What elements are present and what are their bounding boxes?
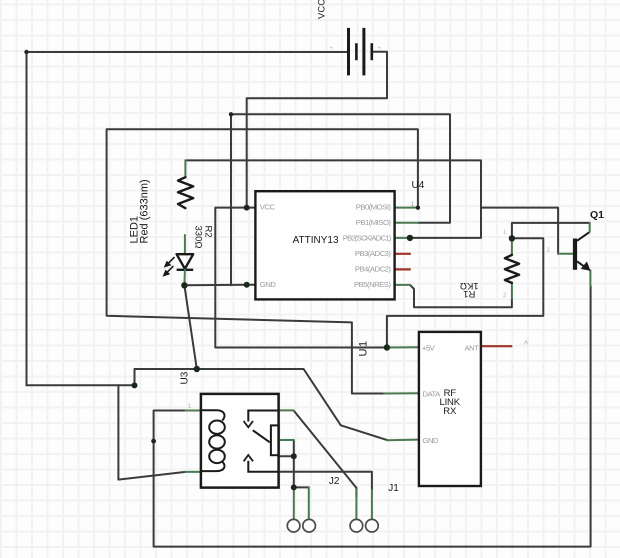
wire PB0 green to bendpoint bbox=[395, 207, 418, 209]
junction PB2 pin bbox=[407, 235, 413, 241]
svg-text:+5V: +5V bbox=[422, 343, 436, 352]
pad J2 pin1 bbox=[287, 519, 300, 532]
junction U3 area bbox=[194, 366, 200, 372]
pad J2 pin2 bbox=[303, 519, 316, 532]
battery B1 bbox=[349, 28, 372, 76]
wire green J2 right pad lead bbox=[308, 487, 310, 519]
svg-text:1: 1 bbox=[411, 201, 415, 208]
wire relay bottom contact pin to J2 junction bbox=[279, 455, 294, 457]
wire green J1 left pad lead bbox=[355, 490, 357, 519]
svg-text:VCC: VCC bbox=[317, 0, 328, 19]
wire green stub R1 bottom bbox=[511, 283, 513, 299]
svg-text:1: 1 bbox=[503, 230, 507, 236]
wire green stub RF DATA pin bbox=[384, 392, 419, 394]
svg-text:PB5(NRES): PB5(NRES) bbox=[354, 280, 391, 289]
wire green stub relay top right pin bbox=[279, 409, 294, 411]
coil loops bbox=[201, 410, 225, 420]
svg-text:A: A bbox=[524, 341, 528, 347]
wire green stub relay coil top pin bbox=[186, 410, 201, 412]
svg-text:330Ω: 330Ω bbox=[193, 226, 204, 249]
junction R1 top bbox=[509, 235, 515, 241]
wire relay COM to J2 pads bbox=[293, 440, 295, 487]
wire U3 junction to RF GND (diagonals) bbox=[197, 369, 388, 440]
switch bottom contact with up arrow bbox=[248, 461, 278, 472]
svg-text:J1: J1 bbox=[388, 483, 399, 494]
svg-text:2: 2 bbox=[503, 293, 507, 299]
relay U3 bbox=[201, 394, 279, 488]
wire green stub relay coil bottom pin bbox=[186, 471, 201, 473]
svg-text:U3: U3 bbox=[180, 371, 191, 384]
wire R1 top to Q1 collector bbox=[512, 223, 590, 238]
svg-text:VCC: VCC bbox=[260, 203, 276, 212]
junction J2 b bbox=[291, 484, 297, 490]
wire IC VCC pin to left bbox=[215, 208, 387, 348]
wire PB1 to GND vertical x231 bbox=[231, 114, 450, 285]
svg-text:DATA: DATA bbox=[422, 389, 441, 398]
switch lever bbox=[253, 430, 270, 442]
wire PB2 branch to Q1 base bbox=[481, 208, 558, 254]
wire green stub R2 top bbox=[184, 160, 186, 177]
wire PB2 junction to R2 top bbox=[185, 160, 481, 238]
svg-text:RX: RX bbox=[443, 406, 457, 417]
wire green stub PB1 bbox=[395, 222, 418, 224]
wire LED cathode to U3 junction (diagonal) bbox=[184, 285, 196, 369]
svg-text:U4: U4 bbox=[412, 180, 425, 191]
wire +5V up and over to R1 top bbox=[387, 238, 543, 347]
bendpoint coil-top wire bbox=[151, 439, 156, 444]
svg-text:1KΩ: 1KΩ bbox=[460, 280, 479, 291]
wire VCC: battery right down to IC VCC bbox=[247, 52, 387, 208]
wire green stub PB5 bbox=[395, 284, 411, 286]
red stub RF ANT unconnected bbox=[481, 345, 513, 347]
junction J2 a bbox=[291, 453, 297, 459]
wire PB0 to RF DATA bbox=[107, 129, 418, 393]
switch top contact with down arrow bbox=[248, 411, 278, 422]
IC U4 ATTINY13 box bbox=[255, 191, 394, 299]
wire green J1 right pad lead bbox=[371, 490, 373, 519]
wire green stub PB2 bbox=[395, 237, 410, 239]
wire green stub Q1 emitter bbox=[589, 271, 591, 286]
wire green stub Q1 base bbox=[558, 253, 573, 255]
svg-text:GND: GND bbox=[422, 436, 439, 445]
svg-text:Q1: Q1 bbox=[590, 209, 604, 221]
LED LED1 bbox=[164, 235, 193, 285]
RF module U1 box bbox=[419, 332, 481, 486]
svg-text:PB2(SCK/ADC1): PB2(SCK/ADC1) bbox=[343, 234, 392, 243]
svg-text:PB4(ADC2): PB4(ADC2) bbox=[355, 265, 392, 274]
wire green stub RF GND pin bbox=[388, 439, 419, 442]
wire green J2 left pad lead bbox=[293, 487, 295, 519]
wire relay coil top to bottom rail to Q1 emitter bbox=[154, 286, 591, 547]
wire GND to relay coil bottom bbox=[118, 385, 185, 479]
bendpoint PB0 wire bbox=[416, 206, 420, 210]
svg-text:PB0(MOSI): PB0(MOSI) bbox=[356, 203, 392, 212]
wire LED junction to IC GND pin bbox=[184, 284, 246, 287]
wire jog at left junction bbox=[135, 369, 197, 385]
svg-text:2: 2 bbox=[547, 248, 551, 254]
wire GND: battery left to top-left corner bbox=[27, 52, 349, 385]
red stub PB3 unconnected bbox=[395, 253, 411, 255]
bendpoint top-left bbox=[24, 50, 28, 54]
svg-text:ANT: ANT bbox=[465, 343, 480, 352]
wire green stub RF +5V pin bbox=[387, 346, 419, 348]
red stub PB4 unconnected bbox=[395, 268, 411, 270]
wire green stub R1 top bbox=[511, 238, 513, 255]
wire relay NC pin to J1 left pad (diagonal) bbox=[294, 410, 357, 497]
wire J2 junction to right pad bbox=[294, 486, 309, 488]
svg-text:+: + bbox=[378, 46, 382, 52]
svg-text:1: 1 bbox=[188, 404, 192, 410]
wire GND bottom-left horizontal bbox=[27, 384, 135, 386]
wire IC GND pin stub bbox=[247, 284, 256, 286]
svg-text:PB1(MISO): PB1(MISO) bbox=[356, 218, 392, 227]
resistor R1 bbox=[505, 255, 519, 283]
junction IC GND pin bbox=[244, 282, 250, 288]
svg-text:Red (633nm): Red (633nm) bbox=[139, 179, 151, 243]
junction GND left bbox=[132, 382, 138, 388]
contact rectangle bbox=[271, 425, 279, 455]
svg-text:ATTINY13: ATTINY13 bbox=[293, 235, 339, 246]
pad J1 pin1 bbox=[350, 519, 363, 532]
svg-text:PB3(ADC3): PB3(ADC3) bbox=[355, 249, 392, 258]
svg-text:+: + bbox=[330, 46, 334, 52]
bendpoint x231 top bbox=[229, 112, 233, 116]
svg-text:U1: U1 bbox=[357, 339, 369, 356]
svg-text:J2: J2 bbox=[329, 476, 340, 487]
wire PB5 to R1 bottom bbox=[410, 285, 512, 307]
junction IC VCC pin bbox=[244, 205, 250, 211]
svg-text:GND: GND bbox=[260, 280, 277, 289]
pad J1 pin2 bbox=[366, 519, 379, 532]
wire relay NO pin to J1 right pad bbox=[279, 472, 372, 490]
resistor R2 bbox=[178, 177, 193, 208]
junction RF +5V bbox=[384, 344, 390, 350]
junction LED cathode bbox=[181, 282, 187, 288]
wire green stub relay contact pin bbox=[279, 439, 294, 441]
transistor Q1 bbox=[573, 223, 591, 271]
